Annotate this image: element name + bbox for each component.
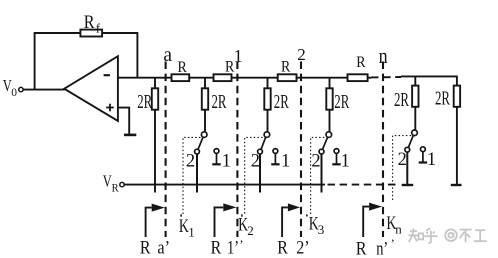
label R1 [178,59,188,76]
label 2R section Kn [394,90,409,111]
switch Kn contact 1 bar [419,161,427,163]
op-amp plus sign [106,104,114,112]
label R 2' [277,237,309,258]
label 2 of K3 [311,152,320,172]
rail end bar under Kn [402,184,414,186]
switch K3 contact 1 [334,149,339,154]
switch K2 lever [261,137,266,149]
node a: 2R drop wire [154,78,156,89]
wire R2 to node 2R3 [232,77,278,79]
divider line a (dashed) [165,62,167,238]
svg-text:2R: 2R [394,90,409,111]
rail dashed continuation [328,184,398,186]
label n (top node) [379,43,388,68]
wire feedback top right [102,32,137,34]
wire corner to terminator 2R [456,76,458,86]
svg-text:,: , [240,230,243,245]
op-amp minus sign [104,74,110,76]
svg-text:R: R [112,183,119,195]
svg-text:R: R [356,239,367,258]
node 2R4 drop wire [329,78,331,89]
terminal V0 [19,87,23,91]
wire 2R to switch K2 pole [267,110,269,132]
svg-text:2’: 2’ [296,237,309,258]
node 2R2 drop wire [204,78,206,89]
resistor 2R terminator [454,86,460,107]
resistor R1 [172,74,190,81]
svg-text:2: 2 [311,152,320,172]
switch K2 contact 2 [258,149,263,154]
rail VR solid [124,184,325,186]
wire op-amp plus input [118,108,129,134]
svg-text:1’: 1’ [227,237,239,258]
svg-text:0: 0 [11,87,17,99]
resistor 2R (section Kn) [412,86,418,107]
wire V0 to op-amp output [23,89,64,91]
svg-text:2R: 2R [212,92,227,113]
terminal VR [120,182,124,186]
label R4 [356,54,366,71]
glyph at [445,229,457,241]
svg-text:1: 1 [222,152,231,172]
svg-text:2R: 2R [334,92,349,113]
label 2 of K1 [186,152,195,172]
resistor Rf [80,30,102,37]
wire feedback right leg [136,32,138,78]
dotted box K1 [183,137,203,214]
wire terminator 2R down [456,107,458,185]
watermark zhihu @bugong [409,228,487,243]
label 1 of K3 [341,152,350,172]
wire K1 contact 2 to rail [196,154,198,193]
label 2R section K1 [212,92,227,113]
switch K1 contact 2 [195,149,200,154]
svg-text:R: R [84,12,95,33]
glyph hu [424,228,437,243]
wire 2R to switch K1 pole [204,110,206,132]
switch Kn contact 1 [421,147,426,152]
resistor 2R (section K1) [202,88,208,109]
label V0 [3,76,18,99]
speck above K2 [241,214,243,216]
svg-text:n’: n’ [376,239,388,258]
arrow Kn [363,203,382,237]
svg-text:1: 1 [188,225,195,240]
wire K2 contact 2 to rail [259,154,261,193]
glyph gong [474,230,487,241]
node 2R3 drop wire [267,78,269,89]
label 1 of K2 [281,152,290,172]
label 2 of K2 [251,152,260,172]
switch K3 pole contact [326,132,332,138]
label K2 [238,215,254,239]
switch Kn contact 2 [405,147,410,152]
resistor 2R (leftmost, no switch) [152,88,158,109]
label R 1' [211,237,239,258]
label 1 of K1 [222,152,231,172]
dotted box K3 [311,137,328,214]
svg-text:f: f [96,21,101,36]
svg-text:R: R [277,237,288,258]
resistor R3 [278,74,297,81]
ground [124,134,136,137]
label 2R section K2 [274,92,289,113]
label R n' [356,239,388,258]
svg-text:2: 2 [297,45,306,64]
wire R4 stub [368,77,371,79]
svg-text:2R: 2R [274,92,289,113]
label a [163,44,172,66]
resistor R4 [348,74,368,81]
wire R3 to node 2R4 [297,77,348,79]
svg-text:1: 1 [281,152,290,172]
switch K3 contact 1 stem [336,154,338,164]
glyph bu [460,230,472,243]
resistor 2R (section K3) [326,88,332,109]
label 1 of Kn [427,150,436,170]
label 1 (top node) [234,46,243,66]
glyph zhi [409,228,424,242]
svg-text:2: 2 [251,152,260,172]
terminator end bar [451,184,462,186]
wire 2R leftmost down to rail [154,110,156,193]
divider line n (dashed) [382,62,384,238]
wire 2R to switch K3 pole [329,110,331,132]
label Kn [386,213,402,237]
svg-text:R: R [281,58,291,75]
dotted box K2 [245,137,266,213]
op-amp U1 [64,56,118,121]
switch Kn contact 1 stem [422,152,424,162]
label VR [103,172,119,195]
svg-text:2R: 2R [137,92,152,113]
wire bus right section [401,75,457,77]
svg-text:R: R [211,237,222,258]
divider line 1 (dashed) [236,62,238,238]
svg-text:1: 1 [427,150,436,170]
label Rf [84,12,101,36]
label R a' [140,237,170,258]
svg-text:2R: 2R [435,88,450,109]
label 2 (top node) [297,45,306,64]
wire 2R to switch Kn pole [414,107,416,130]
speck above K3 [306,214,308,216]
svg-text:a’: a’ [157,237,170,258]
svg-text:3: 3 [318,222,325,237]
switch K2 contact 1 bar [271,163,279,165]
switch K1 contact 1 stem [216,154,218,164]
divider line 2 (dashed) [300,62,302,238]
svg-text:R: R [140,237,151,258]
switch K1 pole contact [201,132,207,138]
speck above K1 [180,214,182,216]
dotted box Kn [393,136,414,200]
label 2 of Kn [398,150,407,170]
wire feedback left leg [34,33,36,90]
svg-text:2: 2 [398,150,407,170]
svg-text:2: 2 [186,152,195,172]
switch K3 contact 1 bar [332,163,340,165]
wire feedback top left [34,32,81,34]
switch K2 pole contact [264,132,270,138]
wire summing bus: op-amp minus to R1 [118,77,172,79]
switch K1 contact 1 [214,149,219,154]
svg-text:R: R [178,59,188,76]
node n drop wire [414,76,416,85]
wire K3 contact 2 to rail [321,154,323,193]
arrow K3 [282,203,300,237]
label R3 [281,58,291,75]
switch K1 lever [198,137,203,149]
label K1 [179,216,195,240]
switch K1 contact 1 bar [212,163,220,165]
switch Kn pole contact [412,130,418,136]
switch K2 contact 1 stem [274,154,276,164]
label R2 [225,59,235,76]
label 2R leftmost [137,92,152,113]
switch K3 contact 2 [319,149,324,154]
arrow K2 [215,203,237,237]
wire bus dashed continuation [371,76,401,78]
svg-text:1: 1 [341,152,350,172]
resistor R2 [214,74,232,81]
svg-text:,: , [391,229,394,244]
wire Kn contact 2 to rail [406,152,408,185]
wire R1 to node 2R2 [189,77,213,79]
switch K3 lever [323,137,328,149]
svg-text:2: 2 [247,223,254,238]
label K3 [309,214,325,238]
arrow K1 [146,204,165,237]
label 2R section K3 [334,92,349,113]
switch K2 contact 1 [273,149,278,154]
svg-text:n: n [395,222,402,237]
switch Kn lever [408,135,413,147]
svg-text:R: R [356,54,366,71]
label 2R terminator [435,88,450,109]
resistor 2R (section K2) [264,88,270,109]
